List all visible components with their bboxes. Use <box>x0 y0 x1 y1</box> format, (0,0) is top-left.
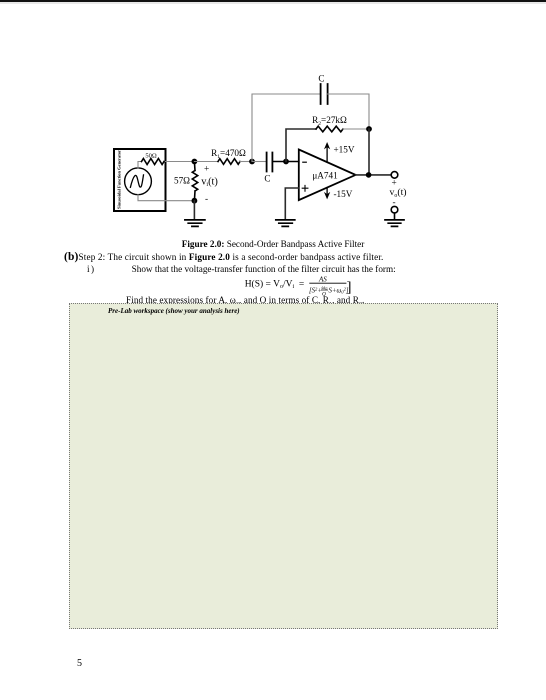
svg-text:μA741: μA741 <box>312 170 338 180</box>
resistor 50ohm <box>142 159 165 165</box>
function generator label <box>117 150 122 209</box>
wire series cap to node D <box>272 161 286 163</box>
svg-text:50Ω: 50Ω <box>145 152 157 159</box>
formula <box>240 272 360 298</box>
node B (input bottom) <box>192 198 198 204</box>
svg-text:+15V: +15V <box>334 145 355 155</box>
+15V supply arrow <box>325 143 329 162</box>
wire generator bottom <box>138 195 194 201</box>
line i) <box>87 264 396 274</box>
wire R2 to node E <box>343 128 369 130</box>
figure caption <box>0 239 546 249</box>
label vo(t) plus <box>392 179 397 189</box>
wire R1 to node C <box>240 161 252 163</box>
label 57ohm <box>174 176 190 186</box>
top page border bar <box>0 0 546 2</box>
svg-text:-15V: -15V <box>334 189 353 199</box>
svg-text:[S2+: [S2+ <box>309 286 322 294</box>
svg-text:]: ] <box>347 280 352 296</box>
wire node C to series cap <box>252 161 266 163</box>
wire node D up to R2 <box>286 129 316 162</box>
output terminal bottom <box>391 206 398 213</box>
label vo(t) <box>390 187 407 199</box>
node F (output) <box>366 172 372 178</box>
label R1=470ohm <box>211 148 246 160</box>
pre-lab workspace box <box>69 303 498 629</box>
node A (input top) <box>192 159 198 165</box>
wire feedback cap to right rail <box>328 94 369 129</box>
wire node B to ground <box>193 201 195 220</box>
output terminal top <box>391 172 398 179</box>
wire non-inverting input to ground <box>285 188 299 219</box>
wire node E down to output node <box>368 129 370 175</box>
label C feedback <box>318 74 324 84</box>
capacitor C feedback <box>321 84 328 104</box>
find expressions line <box>126 295 364 308</box>
wire generator top <box>138 162 194 168</box>
wire node D to op-amp <box>286 161 299 163</box>
svg-text:C: C <box>264 173 270 183</box>
ground (output) <box>385 220 404 227</box>
op-amp plus sign <box>302 185 308 191</box>
resistor R1 <box>218 159 240 165</box>
wire node C up to feedback cap <box>252 94 320 162</box>
resistor 57ohm <box>192 162 197 201</box>
label C series <box>264 173 270 183</box>
resistor R2 <box>316 126 343 132</box>
svg-text:R1=470Ω: R1=470Ω <box>211 148 246 160</box>
label vo(t) minus <box>393 198 396 208</box>
label vi(t) minus <box>205 195 208 205</box>
ground (input) <box>185 220 205 227</box>
svg-text:-: - <box>205 195 208 205</box>
svg-text:Sinusoidal Function Generator: Sinusoidal Function Generator <box>117 150 122 209</box>
label uA741 <box>312 170 338 180</box>
function generator box <box>114 149 166 211</box>
label vi(t) <box>201 176 218 188</box>
label R2=27kohm <box>312 115 347 127</box>
svg-text:vi(t): vi(t) <box>201 176 218 188</box>
op-amp minus sign <box>303 161 307 163</box>
paragraph (b) <box>64 251 384 263</box>
svg-text:57Ω: 57Ω <box>174 176 190 186</box>
svg-text:H(S) = Vo/Vi =: H(S) = Vo/Vi = <box>245 279 305 291</box>
label -15V <box>334 189 353 199</box>
node E (feedback junction) <box>366 126 372 132</box>
svg-text:C: C <box>318 74 324 84</box>
label +15V <box>334 145 355 155</box>
node C <box>249 159 255 165</box>
wire output terminal to ground <box>394 213 396 219</box>
source circle U-sine <box>125 168 152 195</box>
-15V supply arrow <box>325 188 329 199</box>
svg-text:R2=27kΩ: R2=27kΩ <box>312 115 347 127</box>
label 50ohm <box>145 152 157 159</box>
page number <box>77 658 82 669</box>
wire node A to R1 <box>194 161 218 163</box>
capacitor C series <box>267 153 273 172</box>
svg-text:AS: AS <box>318 276 327 284</box>
svg-text:+: + <box>204 165 209 175</box>
node D (inverting input) <box>283 159 289 165</box>
op-amp U1 triangle <box>299 150 356 201</box>
ground (op-amp + input) <box>276 220 295 227</box>
label vi(t) plus <box>204 165 209 175</box>
wire op-amp output <box>356 174 392 176</box>
